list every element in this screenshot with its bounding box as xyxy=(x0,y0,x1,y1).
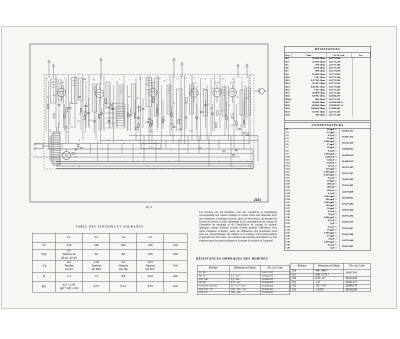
svg-text:C12: C12 xyxy=(79,114,82,116)
svg-text:S8: S8 xyxy=(93,79,95,81)
svg-text:5: 5 xyxy=(57,78,58,80)
svg-text:S11: S11 xyxy=(71,127,74,129)
svg-text:0,1: 0,1 xyxy=(139,79,141,81)
svg-text:ECH4: ECH4 xyxy=(230,83,234,85)
svg-text:2191: 2191 xyxy=(254,198,261,202)
svg-text:ECH4: ECH4 xyxy=(97,84,101,86)
svg-text:~: ~ xyxy=(32,149,34,151)
svg-text:R6: R6 xyxy=(197,118,199,120)
svg-text:C5: C5 xyxy=(51,82,53,84)
svg-text:C3: C3 xyxy=(146,83,148,85)
svg-text:R3: R3 xyxy=(159,78,161,80)
svg-text:R15: R15 xyxy=(137,107,140,109)
svg-text:C7: C7 xyxy=(115,103,117,105)
svg-text:R10: R10 xyxy=(190,131,193,133)
svg-text:R16: R16 xyxy=(147,90,150,92)
svg-text:a: a xyxy=(166,79,167,81)
svg-text:R5: R5 xyxy=(151,131,153,133)
svg-text:0,1: 0,1 xyxy=(71,103,73,105)
svg-text:5: 5 xyxy=(147,79,148,81)
svg-text:25: 25 xyxy=(75,78,77,80)
svg-text:S27: S27 xyxy=(185,103,188,105)
svg-text:S14: S14 xyxy=(89,120,92,122)
svg-text:47: 47 xyxy=(179,119,181,121)
svg-text:S18: S18 xyxy=(83,79,86,81)
svg-text:5: 5 xyxy=(212,78,213,80)
svg-text:S19: S19 xyxy=(179,128,182,130)
svg-text:C15: C15 xyxy=(162,116,165,118)
svg-text:5: 5 xyxy=(129,79,130,81)
svg-text:C20: C20 xyxy=(202,88,205,90)
svg-text:R7: R7 xyxy=(173,103,175,105)
svg-text:5.80: 5.80 xyxy=(74,157,77,159)
svg-text:5: 5 xyxy=(64,78,65,80)
svg-text:C9: C9 xyxy=(208,105,210,107)
svg-text:R20: R20 xyxy=(170,123,173,125)
svg-text:S23: S23 xyxy=(112,109,115,111)
svg-text:2: 2 xyxy=(32,154,33,156)
svg-text:0,1: 0,1 xyxy=(176,78,178,80)
svg-text:ECH4: ECH4 xyxy=(59,83,63,85)
svg-text:S2: S2 xyxy=(240,125,242,127)
svg-text:ECH4: ECH4 xyxy=(215,83,219,85)
svg-text:R3: R3 xyxy=(222,79,224,81)
svg-text:C25: C25 xyxy=(228,105,231,107)
svg-text:C11: C11 xyxy=(149,101,152,103)
svg-text:C14: C14 xyxy=(163,120,166,122)
svg-text:C17: C17 xyxy=(246,117,249,119)
svg-text:5000: 5000 xyxy=(245,98,249,100)
svg-text:50: 50 xyxy=(211,88,213,90)
svg-text:C36: C36 xyxy=(231,117,234,119)
svg-text:R13: R13 xyxy=(219,90,222,92)
svg-text:S4: S4 xyxy=(46,78,48,80)
svg-text:C26: C26 xyxy=(77,121,80,123)
svg-text:C2: C2 xyxy=(241,78,243,80)
svg-text:S1: S1 xyxy=(194,78,196,80)
svg-text:R12: R12 xyxy=(210,108,213,110)
svg-text:S5: S5 xyxy=(47,97,49,99)
svg-text:Fig. 5: Fig. 5 xyxy=(146,205,153,209)
svg-text:S25: S25 xyxy=(136,98,139,100)
svg-text:S1: S1 xyxy=(232,79,234,81)
svg-text:5: 5 xyxy=(119,79,120,81)
svg-text:S21: S21 xyxy=(53,95,56,97)
svg-text:0,1: 0,1 xyxy=(204,78,206,80)
svg-text:S1: S1 xyxy=(185,78,187,80)
svg-text:5: 5 xyxy=(101,78,102,80)
svg-text:ECH4: ECH4 xyxy=(151,83,155,85)
svg-text:R4: R4 xyxy=(221,110,223,112)
svg-text:C22: C22 xyxy=(163,81,166,83)
svg-text:ECH4: ECH4 xyxy=(192,83,196,85)
svg-text:0,5: 0,5 xyxy=(234,120,236,122)
svg-text:R11: R11 xyxy=(205,90,208,92)
svg-text:R9: R9 xyxy=(236,97,238,99)
svg-text:a: a xyxy=(112,78,113,80)
svg-text:C28: C28 xyxy=(231,125,234,127)
svg-text:2.180: 2.180 xyxy=(149,147,154,149)
svg-text:C31: C31 xyxy=(155,114,158,116)
svg-text:R8: R8 xyxy=(66,131,68,133)
svg-text:R17: R17 xyxy=(128,97,131,99)
